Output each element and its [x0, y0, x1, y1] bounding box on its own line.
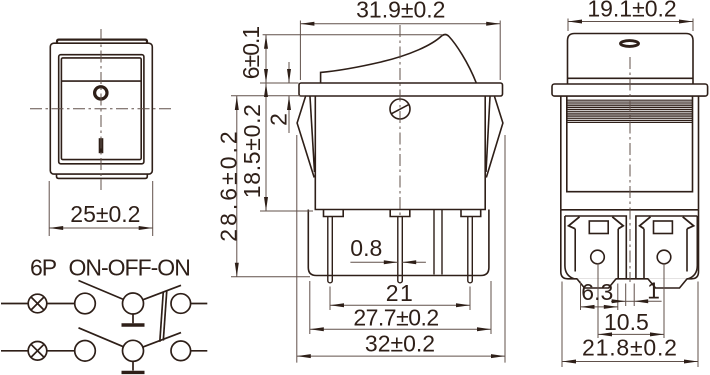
svg-text:28.6±0.2: 28.6±0.2 — [216, 128, 242, 241]
svg-text:10.5: 10.5 — [604, 309, 649, 335]
svg-text:6.3: 6.3 — [581, 279, 613, 305]
svg-text:2: 2 — [266, 113, 292, 126]
svg-text:1: 1 — [647, 277, 660, 303]
svg-text:27.7±0.2: 27.7±0.2 — [353, 304, 438, 330]
svg-text:21.8±0.2: 21.8±0.2 — [582, 335, 678, 361]
svg-text:21: 21 — [386, 280, 415, 306]
svg-text:ON-OFF-ON: ON-OFF-ON — [69, 255, 190, 281]
svg-text:18.5±0.2: 18.5±0.2 — [239, 103, 265, 198]
svg-text:31.9±0.2: 31.9±0.2 — [356, 0, 445, 23]
svg-text:25±0.2: 25±0.2 — [70, 201, 140, 227]
svg-text:6±0.1: 6±0.1 — [238, 27, 264, 80]
svg-text:0.8: 0.8 — [350, 235, 382, 261]
svg-text:32±0.2: 32±0.2 — [365, 331, 435, 357]
svg-text:19.1±0.2: 19.1±0.2 — [587, 0, 676, 22]
svg-text:6P: 6P — [30, 255, 57, 281]
